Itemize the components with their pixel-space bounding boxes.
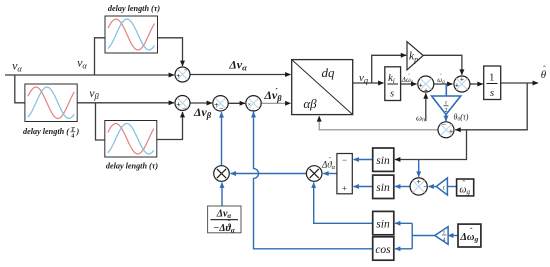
1/s integrator block bbox=[484, 66, 501, 100]
svg-text:−: − bbox=[219, 104, 224, 113]
svg-text:Δvα: Δvα bbox=[228, 58, 247, 73]
svg-text:+: + bbox=[417, 177, 421, 186]
wire branch down to delay box 3 bbox=[96, 103, 105, 140]
fraction box dv_alpha / -dv_hat_alpha bbox=[208, 206, 241, 234]
wire 1/s output theta_hat bbox=[501, 82, 538, 84]
svg-text:delay length (τ): delay length (τ) bbox=[106, 162, 159, 171]
sum W2 (plus kp path) bbox=[454, 74, 470, 92]
wire bottom sum output to dq bottom bbox=[319, 116, 438, 130]
svg-text:+: + bbox=[342, 184, 347, 194]
wire delta omega box to tau/4 triangle bbox=[448, 235, 458, 237]
svg-text:Δvβ: Δvβ bbox=[263, 88, 282, 103]
tau/4 gain triangle (blue, pointing left) bbox=[435, 227, 448, 245]
svg-text:+: + bbox=[460, 74, 464, 83]
sum A (v_alpha - delayed) bbox=[175, 66, 190, 82]
sin block 1 bbox=[373, 148, 394, 171]
svg-text:cos: cos bbox=[375, 244, 391, 256]
wire blue sum output into sin2 bbox=[395, 186, 410, 188]
wire sum A output (delta v_alpha) to dq bbox=[190, 74, 291, 76]
wire tau triangle output into blue sum right bbox=[429, 186, 437, 188]
wire multiplier R output to multiplier L bbox=[231, 173, 307, 175]
svg-text:delay length (τ): delay length (τ) bbox=[108, 4, 161, 13]
wire delay box 3 output to sum B bottom bbox=[157, 112, 183, 140]
svg-text:dq: dq bbox=[322, 65, 336, 80]
label delta theta_hat_alpha bbox=[321, 158, 336, 172]
svg-text:sin: sin bbox=[376, 219, 390, 231]
wire multiplier L output up into sum C1 bottom bbox=[221, 112, 223, 166]
wire v_alpha main bbox=[5, 74, 174, 76]
wire C2 output (delta v'_beta) to dq bbox=[261, 102, 291, 104]
svg-text:sin: sin bbox=[376, 182, 390, 194]
wire omega_n up into sum W1 bottom bbox=[425, 93, 427, 121]
sum B (v_beta - delayed) bbox=[175, 96, 190, 114]
ki/s block bbox=[385, 67, 401, 101]
svg-text:Δωg: Δωg bbox=[459, 232, 478, 244]
wire feedback down from theta_hat to bottom sum right bbox=[455, 83, 527, 130]
tau/2 gain triangle (blue, pointing down) bbox=[432, 96, 461, 115]
wire tau/2 output into bottom sum top bbox=[445, 115, 447, 122]
wire branch down to delay box 2 bbox=[15, 75, 25, 103]
svg-text:ˆ: ˆ bbox=[543, 65, 546, 74]
svg-text:vα: vα bbox=[12, 59, 22, 74]
svg-text:ωn: ωn bbox=[416, 113, 425, 124]
tau gain triangle (blue, pointing left) bbox=[436, 178, 447, 195]
wire arrow into cos bbox=[395, 248, 412, 250]
svg-text:+: + bbox=[176, 71, 180, 80]
wire omega_hat_g box to tau triangle bbox=[447, 186, 456, 188]
wire sin2 output into rect sum bottom bbox=[354, 186, 373, 188]
svg-text:ˆ: ˆ bbox=[329, 158, 331, 164]
omega_hat_g input box bbox=[457, 179, 474, 196]
rect sum block (- over +) bbox=[337, 154, 352, 194]
svg-text:4: 4 bbox=[443, 237, 446, 243]
sum C1 (delta v_beta minus correction) bbox=[213, 96, 228, 114]
svg-text:+: + bbox=[419, 81, 423, 90]
svg-text:4: 4 bbox=[71, 134, 74, 140]
svg-text:vβ: vβ bbox=[89, 86, 99, 101]
svg-text:θ0(τ): θ0(τ) bbox=[454, 113, 469, 123]
wire sum C1 output to multiply/divide C2 bbox=[228, 102, 245, 104]
wire sin1 output into rect sum top bbox=[354, 159, 373, 161]
svg-text:+: + bbox=[455, 81, 459, 90]
svg-text:): ) bbox=[76, 127, 80, 136]
wire v_q from dq to ki/s bbox=[353, 82, 384, 84]
wire sum W1 output to sum W2 bbox=[434, 83, 453, 85]
wire tau/4 output splitting to sin3 and cos bbox=[395, 223, 435, 249]
wire blue tap omega to tau/2 triangle bbox=[445, 84, 447, 96]
svg-text:−: − bbox=[182, 104, 187, 113]
wire fraction box up into multiplier L bottom bbox=[221, 183, 223, 207]
sin block 2 bbox=[373, 175, 394, 198]
multiplier R bbox=[306, 166, 322, 182]
multiply/divide C2 bbox=[246, 96, 261, 114]
svg-text:sin: sin bbox=[376, 155, 390, 167]
wire ki/s output to sum W1 bbox=[401, 83, 417, 85]
svg-text:´: ´ bbox=[275, 87, 278, 97]
wire cos output left and up into C2 bottom, hop over crossing bbox=[254, 112, 373, 249]
sin block 3 bbox=[373, 211, 394, 234]
svg-text:ˆ: ˆ bbox=[408, 74, 410, 80]
dq / alphabeta transform block bbox=[292, 60, 353, 115]
blue sum (phase difference) bbox=[410, 177, 428, 195]
svg-text:2: 2 bbox=[445, 108, 448, 114]
label delta v'_beta bbox=[263, 87, 282, 104]
svg-text:vq: vq bbox=[359, 72, 368, 85]
wire kp output down into sum W2 top bbox=[423, 55, 462, 75]
svg-text:delay length (: delay length ( bbox=[23, 127, 70, 136]
wire branch up to kp bbox=[372, 55, 407, 83]
bottom sum (theta feedback minus theta0) bbox=[438, 120, 454, 138]
delay box 2 (T/4) bbox=[25, 84, 77, 122]
cos block bbox=[373, 237, 394, 260]
svg-text:+: + bbox=[424, 85, 428, 94]
wire delay box 1 output to sum A top bbox=[158, 38, 183, 66]
svg-text:ˆ: ˆ bbox=[440, 74, 442, 80]
svg-text:−: − bbox=[423, 182, 428, 191]
label theta_hat output bbox=[541, 65, 547, 82]
svg-text:1: 1 bbox=[489, 72, 495, 84]
svg-text:s: s bbox=[390, 89, 394, 100]
svg-text:+: + bbox=[449, 126, 453, 135]
svg-text:÷: ÷ bbox=[252, 107, 256, 114]
wire feedback branch down to sin1 bbox=[395, 130, 467, 160]
label delay length (T/4) bbox=[23, 127, 80, 140]
wire branch up to delay box 1 bbox=[95, 38, 106, 75]
svg-text:ˆ: ˆ bbox=[462, 179, 465, 188]
svg-text:Δvβ: Δvβ bbox=[193, 105, 212, 120]
sum W1 (omega_n + delta omega) bbox=[418, 76, 434, 94]
label delta omega_hat_g small bbox=[401, 74, 414, 86]
svg-text:−: − bbox=[342, 155, 347, 165]
svg-text:+: + bbox=[214, 100, 218, 109]
svg-text:s: s bbox=[490, 87, 494, 99]
svg-text:αβ: αβ bbox=[303, 96, 317, 111]
wire sum B output (delta v_beta) to sum C1 bbox=[190, 102, 212, 104]
wire sin3 output left and up into multiplier R bottom bbox=[314, 183, 373, 224]
multiplier L bbox=[214, 166, 230, 182]
svg-text:vα: vα bbox=[77, 56, 87, 71]
delay box 1 (v_alpha, tau) bbox=[105, 16, 158, 53]
svg-text:+: + bbox=[176, 100, 180, 109]
wire rect sum output into multiplier R bbox=[323, 173, 337, 175]
svg-text:−: − bbox=[184, 66, 189, 75]
delay box 3 (v_beta, tau) bbox=[105, 121, 157, 158]
wire sum W2 output to 1/s bbox=[470, 83, 483, 85]
delta omega_hat_g input box bbox=[458, 224, 481, 247]
svg-text:−: − bbox=[442, 120, 447, 129]
wire v_beta from delay box 2 to sum B bbox=[77, 102, 174, 104]
kp gain triangle bbox=[407, 42, 423, 70]
wire blue tap down into blue sum top bbox=[418, 160, 420, 177]
label omega_hat_g small bbox=[437, 74, 445, 86]
